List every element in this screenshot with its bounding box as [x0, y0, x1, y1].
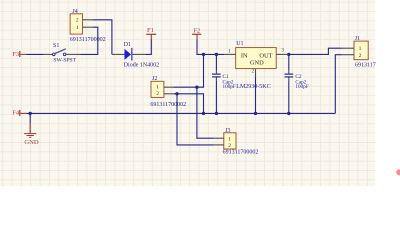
svg-text:1: 1	[156, 85, 159, 91]
svg-text:2: 2	[156, 91, 159, 97]
svg-text:100pF: 100pF	[295, 84, 308, 90]
junction output rail / C2	[287, 53, 290, 56]
wire J2 pin 1 to input rail	[174, 54, 204, 87]
svg-text:F4: F4	[12, 110, 20, 117]
wire F2 to U1 IN rail	[197, 39, 224, 54]
switch S1	[44, 43, 81, 64]
capacitor C2	[285, 54, 309, 113]
wire J3 pin 1 riser	[197, 87, 214, 138]
svg-text:1: 1	[76, 25, 79, 31]
svg-text:F2: F2	[193, 28, 200, 35]
svg-text:691311700002: 691311700002	[223, 150, 259, 156]
svg-text:F3: F3	[12, 51, 20, 58]
connector J4	[70, 9, 106, 43]
svg-text:1: 1	[359, 46, 362, 52]
svg-text:Diode 1N4002: Diode 1N4002	[124, 63, 160, 69]
junction J2 pin 2 / J3 riser	[175, 92, 178, 95]
diode D1	[112, 42, 159, 69]
svg-text:D1: D1	[124, 42, 131, 48]
svg-text:SW-SPST: SW-SPST	[53, 57, 76, 63]
wire J4 pin 2 to D1 anode	[93, 20, 112, 55]
regulator U1	[224, 41, 289, 90]
junction bus / U1 GND	[254, 112, 257, 115]
schematic sheet	[0, 0, 375, 186]
junction input rail / C1	[215, 53, 218, 56]
ground	[24, 113, 39, 145]
wire D1 cathode to port F1	[145, 39, 151, 54]
junction bus / C1	[215, 112, 218, 115]
wire S1 to J4 pin 1	[81, 27, 98, 54]
svg-text:2: 2	[228, 143, 231, 149]
svg-text:691311700002: 691311700002	[70, 37, 106, 43]
port F2	[192, 28, 201, 40]
svg-text:1: 1	[228, 136, 231, 142]
red marker at sheet edge	[396, 169, 400, 175]
junction J2 pin 1 / J3 riser	[195, 86, 198, 89]
wire F3 to S1	[26, 53, 43, 55]
svg-text:691311700002: 691311700002	[150, 102, 186, 108]
junction bus / C2	[287, 112, 290, 115]
connector J2	[150, 76, 186, 108]
svg-text:GND: GND	[250, 59, 264, 66]
svg-text:GND: GND	[24, 139, 39, 146]
connector J1	[342, 36, 376, 69]
svg-text:2: 2	[359, 53, 362, 59]
svg-text:6913117: 6913117	[355, 63, 376, 69]
connector J3	[214, 128, 259, 155]
wire J3 pin 2 riser	[177, 94, 214, 145]
wire J1 pin 2 to ground bus	[335, 55, 341, 114]
wire U1 GND pin to ground bus	[255, 77, 257, 113]
port F3	[12, 51, 26, 58]
wire U1 OUT to J1 pin 1	[289, 48, 342, 54]
svg-text:2: 2	[76, 18, 79, 24]
port F4	[12, 110, 26, 117]
ground bus wire	[26, 112, 335, 114]
svg-text:LM2930-5KC: LM2930-5KC	[236, 84, 270, 90]
svg-text:100pF: 100pF	[223, 84, 236, 90]
junction input rail / J2 riser	[202, 53, 205, 56]
junction bus / ground symbol	[29, 112, 32, 115]
port F1	[146, 27, 156, 40]
svg-text:S1: S1	[53, 43, 59, 49]
svg-text:U1: U1	[236, 41, 243, 47]
capacitor C1	[212, 54, 236, 113]
wire J2 pin 2 to ground bus	[174, 94, 204, 114]
svg-text:IN: IN	[241, 53, 248, 60]
svg-text:F1: F1	[147, 27, 154, 34]
junction bus / J2 pin 2 riser	[202, 112, 205, 115]
